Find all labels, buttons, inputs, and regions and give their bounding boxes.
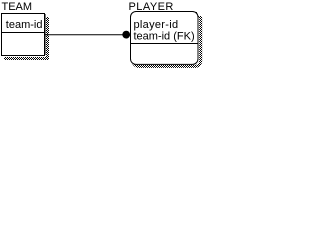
- svg-text:player-id: player-id: [134, 19, 179, 31]
- svg-text:team-id: team-id: [6, 19, 43, 31]
- mask top sliver of PLAYER shadow: [197, 0, 206, 16]
- entity PLAYER shadow (stipple, rounded): [133, 13, 201, 66]
- relationship cardinality dot at PLAYER end: [122, 31, 130, 39]
- entity TEAM shadow (stipple): [4, 17, 49, 60]
- svg-text:TEAM: TEAM: [2, 1, 33, 13]
- svg-text:team-id (FK): team-id (FK): [134, 30, 195, 42]
- entity PLAYER box (rounded: dependent entity): [131, 12, 199, 65]
- svg-text:PLAYER: PLAYER: [129, 1, 174, 13]
- entity TEAM divider: [2, 32, 45, 34]
- entity TEAM right border antialias column: [45, 14, 47, 55]
- relationship wire TEAM to PLAYER: [45, 34, 128, 36]
- background: [0, 0, 206, 71]
- entity TEAM box: [2, 14, 45, 56]
- entity PLAYER divider: [131, 43, 198, 45]
